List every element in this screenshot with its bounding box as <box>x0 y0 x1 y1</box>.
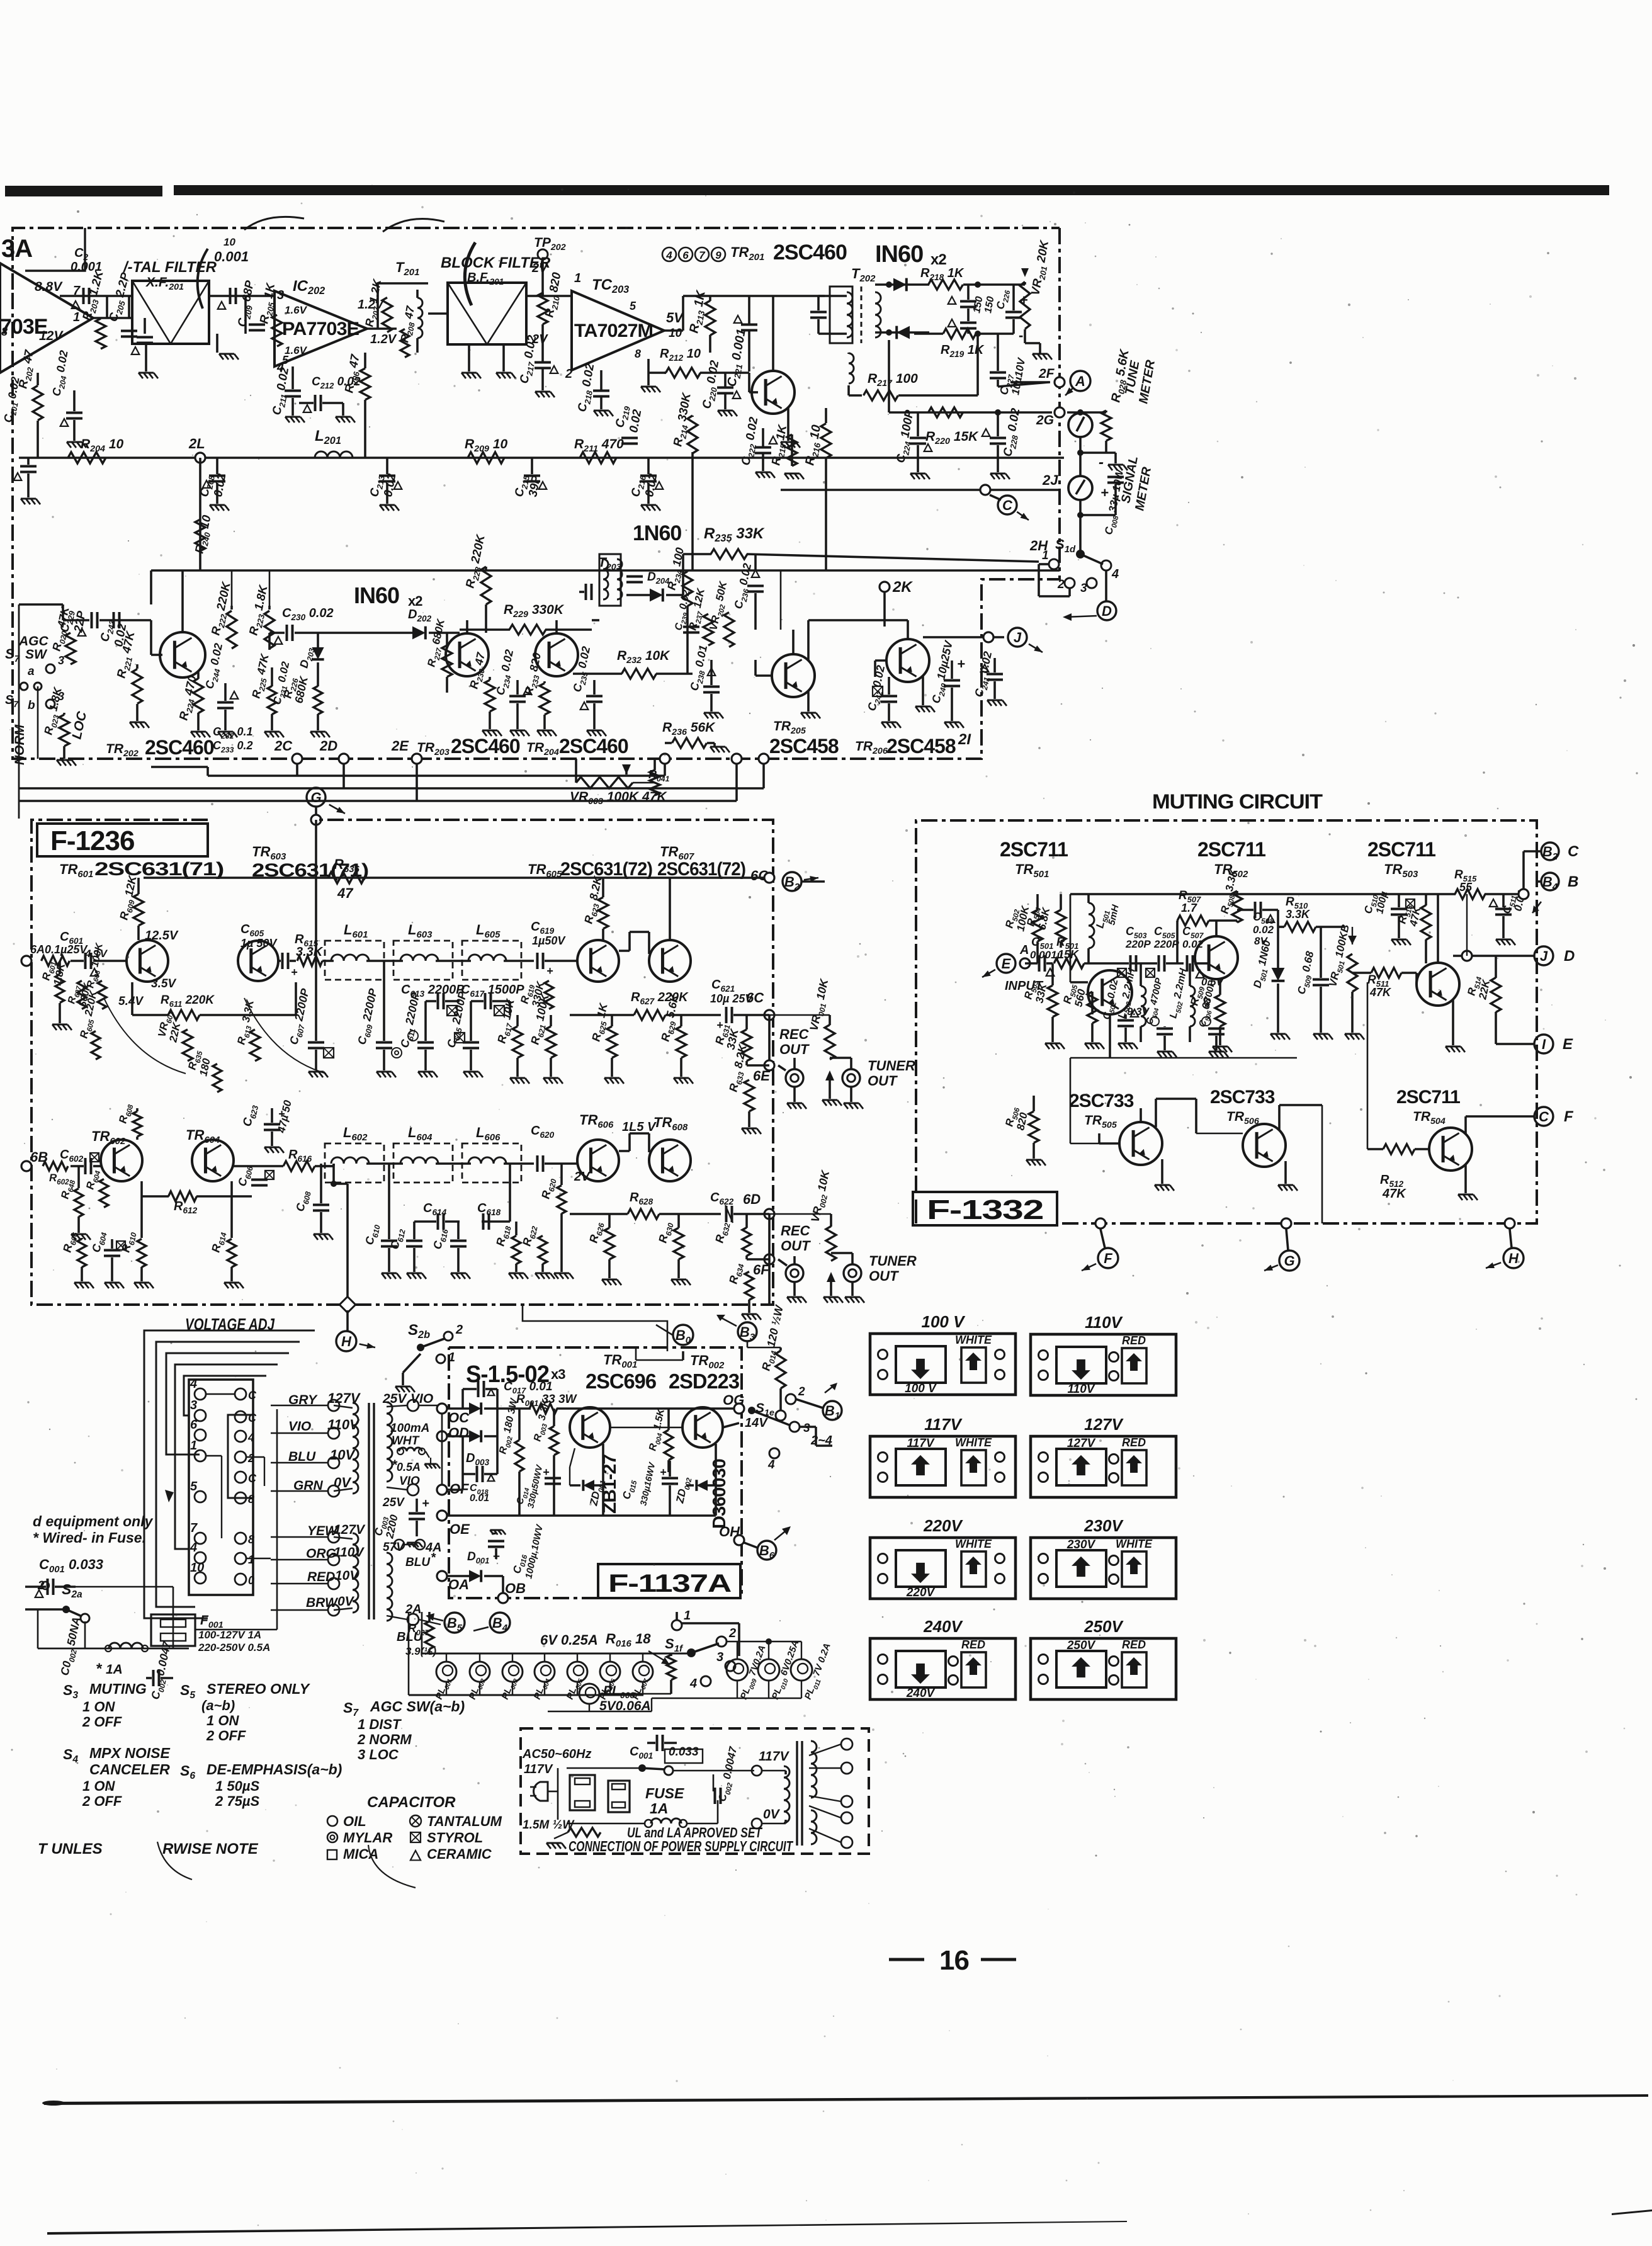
svg-text:10: 10 <box>223 236 235 248</box>
connector B0 <box>673 1325 693 1345</box>
wire main bus y727 <box>19 457 1064 459</box>
svg-text:47K: 47K <box>1369 986 1392 999</box>
svg-text:T UNLES: T UNLES <box>38 1840 103 1857</box>
input node 6A <box>21 956 31 966</box>
wires power out <box>610 1427 682 1429</box>
fuse F001 box <box>151 1614 195 1646</box>
voltage selector 240V box <box>870 1638 1016 1699</box>
svg-text:2SC631(71): 2SC631(71) <box>94 859 223 880</box>
svg-text:220V: 220V <box>923 1516 963 1535</box>
transistor TR206 2SC458 <box>886 639 929 682</box>
connector B1 <box>823 1401 842 1420</box>
svg-text:5: 5 <box>190 1480 198 1494</box>
connector B2 <box>783 872 801 891</box>
connector B6 <box>757 1541 776 1560</box>
svg-text:2C: 2C <box>274 738 293 754</box>
transistor TR502 <box>1195 936 1238 979</box>
svg-text:1 50µS: 1 50µS <box>215 1778 259 1794</box>
transistor TR607 <box>649 940 691 982</box>
plug symbol right <box>608 1781 630 1812</box>
voltage selector 127V left terminals <box>1039 1453 1048 1462</box>
wires from B0 B3 <box>682 1351 684 1360</box>
voltage selector 127V right terminals <box>1109 1455 1119 1464</box>
svg-text:C230 0.02: C230 0.02 <box>282 606 334 622</box>
svg-text:STEREO ONLY: STEREO ONLY <box>206 1681 311 1697</box>
svg-text:NORM: NORM <box>13 724 27 765</box>
voltage selector 117V main plug <box>896 1449 946 1485</box>
F-1236 block dash-dot border <box>31 820 773 1305</box>
svg-text:1: 1 <box>684 1609 691 1623</box>
svg-text:100 V: 100 V <box>905 1382 937 1395</box>
voltage selector 127V main plug <box>1056 1449 1106 1485</box>
transistor TR504 <box>1429 1128 1472 1171</box>
svg-text:1µ 50V: 1µ 50V <box>240 937 278 950</box>
svg-text:G: G <box>310 790 321 805</box>
svg-text:117V: 117V <box>524 1762 553 1776</box>
S1f feed wires <box>727 1641 801 1642</box>
svg-text:REC: REC <box>781 1223 811 1239</box>
wire <box>128 296 130 318</box>
wire opamp out to T201 <box>367 327 397 330</box>
svg-text:+: + <box>422 1497 429 1511</box>
svg-text:6: 6 <box>190 1418 198 1432</box>
svg-text:G: G <box>1284 1253 1294 1269</box>
svg-text:8: 8 <box>248 1493 254 1506</box>
svg-text:220-250V 0.5A: 220-250V 0.5A <box>198 1642 270 1653</box>
svg-text:E: E <box>1563 1036 1573 1053</box>
svg-text:110V: 110V <box>1085 1313 1123 1332</box>
voltage selector 100 V left terminals <box>878 1350 888 1359</box>
svg-text:100-127V 1A: 100-127V 1A <box>198 1629 261 1641</box>
svg-text:J: J <box>1540 948 1548 964</box>
wire L602 node to H <box>331 1181 337 1187</box>
transistor TR605 <box>577 940 619 982</box>
svg-text:12.5V: 12.5V <box>145 929 179 943</box>
svg-text:C: C <box>248 1389 257 1402</box>
svg-text:OA: OA <box>448 1577 469 1592</box>
svg-text:1.2V: 1.2V <box>370 332 397 346</box>
svg-text:AGC: AGC <box>18 634 49 649</box>
svg-text:2 OFF: 2 OFF <box>82 1793 122 1809</box>
svg-text:C: C <box>1539 1109 1549 1125</box>
svg-text:25V: 25V <box>382 1496 405 1509</box>
svg-text:C: C <box>248 1412 257 1424</box>
F-1137A dash-dot border <box>449 1347 742 1540</box>
svg-text:TUNER: TUNER <box>868 1058 915 1074</box>
opamp IC201 703E (partial at left edge) <box>0 263 93 373</box>
svg-text:D: D <box>1102 603 1112 619</box>
svg-text:4: 4 <box>689 1677 697 1691</box>
voltage selector 230V box <box>1031 1538 1176 1599</box>
svg-text:2SC711: 2SC711 <box>1000 838 1068 861</box>
svg-text:*: * <box>431 1551 436 1565</box>
connector G <box>307 788 325 807</box>
svg-text:4: 4 <box>1111 567 1119 581</box>
transformer primary coil upper <box>353 1403 358 1494</box>
svg-text:2 75µS: 2 75µS <box>215 1793 259 1809</box>
connector E input <box>997 954 1016 973</box>
svg-text:8.8V: 8.8V <box>35 280 63 294</box>
svg-text:MPX NOISE: MPX NOISE <box>89 1745 170 1761</box>
svg-text:F: F <box>1564 1108 1574 1125</box>
svg-text:10V: 10V <box>330 1447 356 1463</box>
svg-text:1 ON: 1 ON <box>206 1713 239 1728</box>
ground under XF201 <box>145 344 147 371</box>
svg-text:4: 4 <box>190 1377 197 1391</box>
grounds under BF201 <box>468 344 470 371</box>
transistor TR204 2SC460 <box>535 633 578 676</box>
svg-text:110V: 110V <box>1068 1383 1095 1396</box>
plug pins left <box>195 1388 206 1400</box>
svg-text:IN60: IN60 <box>354 582 399 608</box>
svg-text:A: A <box>1019 943 1029 957</box>
svg-text:x3: x3 <box>551 1366 565 1382</box>
svg-text:DE-EMPHASIS(a~b): DE-EMPHASIS(a~b) <box>206 1761 342 1778</box>
svg-text:2SC460: 2SC460 <box>559 735 628 757</box>
svg-text:8: 8 <box>248 1533 254 1546</box>
svg-text:J: J <box>1014 630 1022 645</box>
svg-text:+: + <box>957 656 965 672</box>
svg-text:OIL: OIL <box>343 1813 366 1829</box>
svg-text:F-1236: F-1236 <box>50 825 134 856</box>
svg-text:OE: OE <box>450 1521 470 1537</box>
wire cross connections mid <box>780 570 782 630</box>
connector J D right <box>1534 946 1553 965</box>
svg-text:1: 1 <box>248 1553 254 1566</box>
svg-text:47: 47 <box>337 885 354 901</box>
connector B4 B right <box>1541 873 1559 890</box>
svg-text:C: C <box>1568 843 1579 860</box>
svg-text:B: B <box>1568 873 1578 890</box>
svg-text:+: + <box>660 1466 667 1478</box>
svg-text:0: 0 <box>248 1574 254 1587</box>
svg-text:C: C <box>248 1472 257 1485</box>
svg-text:2E: 2E <box>391 738 409 754</box>
voltage selector 127V box <box>1031 1436 1176 1497</box>
svg-text:WHT: WHT <box>392 1434 420 1448</box>
svg-text:RED: RED <box>1122 1638 1146 1651</box>
connector I E right <box>1534 1035 1553 1053</box>
svg-text:2H: 2H <box>1029 538 1048 553</box>
connector B4 <box>490 1613 510 1633</box>
ground R212 <box>647 373 650 385</box>
svg-text:2SC711: 2SC711 <box>1396 1087 1460 1108</box>
svg-text:R235 33K: R235 33K <box>704 525 765 544</box>
svg-text:47K: 47K <box>1382 1187 1406 1201</box>
svg-text:2SC711: 2SC711 <box>1197 838 1265 861</box>
svg-text:RWISE NOTE: RWISE NOTE <box>162 1840 259 1857</box>
secondary terminals in box <box>841 1738 852 1750</box>
node 2F exit and connector A <box>1055 377 1065 387</box>
svg-text:7: 7 <box>190 1521 198 1535</box>
plug inner box <box>228 1415 253 1498</box>
voltage selector 230V left terminals <box>1039 1554 1048 1563</box>
svg-text:4: 4 <box>665 249 672 261</box>
svg-text:BRW: BRW <box>306 1596 339 1610</box>
upper bus wire y1394 <box>144 876 769 879</box>
svg-text:a: a <box>28 665 35 678</box>
muting bottom connectors F G H <box>1095 1218 1106 1228</box>
lamp bottom bus <box>409 1694 643 1696</box>
svg-text:10: 10 <box>669 327 682 340</box>
svg-text:*: * <box>392 1457 398 1473</box>
svg-text:3.5V: 3.5V <box>151 977 176 990</box>
svg-text:1 ON: 1 ON <box>82 1778 115 1794</box>
svg-text:SW: SW <box>25 647 48 662</box>
fuse symbol <box>645 1820 652 1827</box>
resistor R601 input <box>42 956 70 966</box>
svg-text:OC: OC <box>448 1410 470 1426</box>
svg-text:2G: 2G <box>1036 413 1054 428</box>
svg-text:WHITE: WHITE <box>955 1538 992 1550</box>
bottom rule 2 <box>47 2221 1127 2235</box>
voltage selector 117V right terminals <box>995 1453 1005 1462</box>
voltage selector 110V box <box>1031 1334 1176 1395</box>
svg-text:1.7: 1.7 <box>1181 902 1197 914</box>
svg-text:+: + <box>546 965 553 977</box>
svg-text:WHITE: WHITE <box>955 1334 992 1346</box>
connector J <box>923 636 1004 638</box>
bottom rule 1 <box>44 2094 1648 2105</box>
connector C <box>998 496 1017 514</box>
svg-text:A: A <box>1075 373 1085 389</box>
page number 16 <box>889 1958 924 1961</box>
svg-text:FUSE: FUSE <box>645 1785 684 1801</box>
svg-text:-: - <box>1099 454 1104 471</box>
svg-text:250V: 250V <box>1083 1617 1124 1636</box>
svg-text:100mA: 100mA <box>390 1422 429 1435</box>
svg-text:STYROL: STYROL <box>427 1830 483 1846</box>
transformer core in box <box>796 1741 798 1846</box>
pilot lamp at 1273 <box>791 1659 812 1681</box>
svg-text:/-TAL FILTER: /-TAL FILTER <box>123 259 217 276</box>
svg-text:3.3K: 3.3K <box>1286 908 1311 921</box>
svg-text:I: I <box>1542 1036 1546 1052</box>
svg-text:1A: 1A <box>650 1800 668 1817</box>
diode D IN60 upper <box>875 283 929 286</box>
muting top rail <box>1070 893 1454 895</box>
svg-text:3 LOC: 3 LOC <box>358 1747 399 1762</box>
svg-text:+: + <box>543 1466 550 1478</box>
wire second strip y906 <box>151 569 1060 572</box>
switch S1e <box>748 1407 755 1414</box>
transistor TR506 <box>1243 1124 1286 1167</box>
voltage adj arrow mark <box>165 1490 174 1502</box>
svg-text:2SC458: 2SC458 <box>886 735 956 757</box>
voltage selector 250V right terminals <box>1109 1657 1119 1666</box>
svg-text:127V: 127V <box>1067 1437 1096 1450</box>
voltage selector 220V right terminals <box>995 1554 1005 1563</box>
svg-text:220P: 220P <box>1153 938 1179 950</box>
node on F-1236 bottom border <box>339 1296 355 1312</box>
svg-text:R236 56K: R236 56K <box>662 720 716 737</box>
wire T201 to BF201 <box>428 312 448 315</box>
svg-text:0.02: 0.02 <box>1253 924 1274 936</box>
svg-text:5: 5 <box>630 300 636 312</box>
svg-text:12V: 12V <box>39 329 64 343</box>
transformer secondary coil lower <box>387 1553 392 1621</box>
svg-text:16: 16 <box>939 1945 969 1976</box>
capacitor C225 150 <box>960 300 976 303</box>
svg-text:8: 8 <box>635 348 641 360</box>
svg-text:1µ50V: 1µ50V <box>532 934 566 947</box>
svg-text:H: H <box>1508 1251 1519 1266</box>
voltage selector 220V left terminals <box>878 1554 888 1563</box>
svg-text:REC: REC <box>779 1026 810 1042</box>
svg-text:+: + <box>1100 485 1109 501</box>
svg-text:* Wired- in Fuse.: * Wired- in Fuse. <box>33 1529 146 1546</box>
voltage selector 240V left terminals <box>878 1655 888 1664</box>
svg-text:MUTING CIRCUIT: MUTING CIRCUIT <box>1152 790 1323 813</box>
connector D <box>1097 601 1116 620</box>
svg-text:TA7027M: TA7027M <box>574 320 653 341</box>
svg-text:6D: 6D <box>743 1191 761 1207</box>
transformer core <box>368 1403 370 1619</box>
svg-text:R232 10K: R232 10K <box>617 649 670 666</box>
svg-text:WHITE: WHITE <box>1116 1538 1153 1550</box>
svg-text:OB: OB <box>505 1580 526 1596</box>
voltage selector 220V box <box>870 1538 1016 1599</box>
pilot lamp PL007 <box>633 1662 653 1682</box>
transistor TR503 <box>1417 963 1459 1006</box>
svg-text:3: 3 <box>1080 582 1087 595</box>
vertical from G to bus <box>315 820 317 961</box>
transistor TR201 2SC460 <box>752 371 795 414</box>
svg-text:WHITE: WHITE <box>955 1436 992 1449</box>
svg-text:4: 4 <box>247 1431 254 1444</box>
top rule left segment <box>5 186 162 196</box>
svg-text:0.5A: 0.5A <box>397 1461 421 1473</box>
transformer secondary in box <box>811 1741 817 1798</box>
svg-text:3: 3 <box>803 1422 810 1435</box>
voltage selector 100 V main plug <box>896 1346 946 1383</box>
svg-text:240V: 240V <box>923 1617 963 1636</box>
svg-text:OD: OD <box>448 1425 469 1441</box>
svg-text:2: 2 <box>1057 578 1065 591</box>
transistor TR601 <box>127 940 168 982</box>
svg-text:VR003 100K: VR003 100K <box>570 790 640 807</box>
svg-text:117V: 117V <box>924 1415 963 1434</box>
svg-text:10: 10 <box>190 1561 204 1575</box>
transistor TR203 2SC460 <box>446 633 489 676</box>
svg-text:F-1137A: F-1137A <box>608 1570 731 1597</box>
transistor TR603 <box>238 941 278 981</box>
svg-text:D: D <box>1564 948 1575 965</box>
tune meter <box>1068 413 1092 437</box>
capacitor C226 150 <box>960 322 976 324</box>
svg-text:2: 2 <box>565 367 572 381</box>
secondary tap 57V 4A <box>394 1540 404 1550</box>
svg-text:RED: RED <box>307 1570 335 1584</box>
diode D IN60 lower <box>875 331 929 334</box>
svg-text:1: 1 <box>448 1351 455 1364</box>
svg-text:1 DIST: 1 DIST <box>358 1716 402 1732</box>
coil T202 tertiary <box>849 353 854 383</box>
svg-text:CAPACITOR: CAPACITOR <box>367 1794 456 1811</box>
wire OC vertical bus <box>441 1414 443 1485</box>
svg-text:1N60: 1N60 <box>633 521 681 545</box>
svg-text:2SC631(72): 2SC631(72) <box>560 859 652 880</box>
voltage selector 100 V right terminals <box>995 1350 1005 1359</box>
svg-text:2: 2 <box>798 1385 805 1398</box>
lamp bus wire <box>422 1653 688 1655</box>
svg-text:2: 2 <box>455 1323 463 1337</box>
voltage selector 230V right terminals <box>1109 1556 1119 1565</box>
svg-text:117V: 117V <box>907 1437 935 1450</box>
svg-text:2V: 2V <box>531 261 548 275</box>
plug symbol left <box>570 1775 595 1810</box>
svg-text:2SC733: 2SC733 <box>1069 1091 1134 1111</box>
voltage selector 230V main plug <box>1056 1550 1106 1587</box>
svg-text:2SC711: 2SC711 <box>1367 838 1435 861</box>
pilot lamp PL005 <box>567 1662 587 1682</box>
svg-text:TUNER: TUNER <box>869 1253 917 1269</box>
svg-text:2F: 2F <box>1038 366 1055 381</box>
svg-text:R211 470: R211 470 <box>574 437 624 454</box>
voltage selector 250V main plug <box>1056 1651 1106 1687</box>
wires AGC area <box>18 604 20 759</box>
svg-text:2SC458: 2SC458 <box>769 735 839 757</box>
capacitor C601 <box>84 953 87 969</box>
svg-text:230V: 230V <box>1083 1516 1124 1535</box>
svg-text:2: 2 <box>247 1452 254 1465</box>
pilot lamp at 1221 <box>758 1659 779 1681</box>
muting lower wires <box>1070 981 1088 984</box>
svg-text:5V: 5V <box>666 310 684 326</box>
voltage selector 110V main plug <box>1056 1347 1106 1383</box>
voltage selector 250V left terminals <box>1039 1655 1048 1664</box>
F-1332 block dash-dot border <box>916 820 1537 1223</box>
ground VR201 2F <box>1032 353 1048 355</box>
svg-text:D360030: D360030 <box>710 1459 730 1529</box>
FM IF block dash-dot border <box>13 228 1060 290</box>
svg-text:2SC696: 2SC696 <box>586 1370 657 1393</box>
bottom rail OE <box>446 1514 716 1517</box>
connector B3 <box>738 1322 757 1341</box>
wire 2L drop <box>199 458 201 570</box>
voltage selector 220V main plug <box>896 1550 946 1587</box>
svg-text:(a~b): (a~b) <box>201 1698 235 1713</box>
voltage selector 110V right terminals <box>1109 1353 1119 1362</box>
voltage selector 117V left terminals <box>878 1453 888 1462</box>
node 2G exit <box>1055 407 1065 417</box>
feedback wires below border <box>296 764 298 776</box>
svg-text:d equipment only: d equipment only <box>33 1513 154 1529</box>
svg-text:100 V: 100 V <box>922 1312 966 1331</box>
svg-text:RED: RED <box>961 1638 985 1651</box>
scan artifact arcs top <box>198 249 208 309</box>
svg-text:2K: 2K <box>892 579 913 596</box>
jack TUNER OUT lower <box>844 1264 861 1282</box>
capacitor C008 33u10W <box>1114 453 1117 463</box>
svg-text:1: 1 <box>73 310 80 324</box>
wire top chain to TR201 <box>664 329 683 332</box>
svg-text:CONNECTION OF POWER SUPPLY CIR: CONNECTION OF POWER SUPPLY CIRCUIT <box>569 1838 793 1854</box>
scan speckle noise <box>1049 221 1051 222</box>
voltage selector 240V main plug <box>896 1651 946 1687</box>
plug pins right <box>235 1388 246 1400</box>
svg-text:2 OFF: 2 OFF <box>82 1714 122 1730</box>
F-1137A label box <box>598 1564 740 1598</box>
top rule right segment <box>174 185 1609 195</box>
svg-text:230V: 230V <box>1066 1538 1096 1551</box>
svg-text:x2: x2 <box>931 251 946 268</box>
svg-text:BLU: BLU <box>288 1449 316 1464</box>
svg-text:BLU: BLU <box>405 1556 431 1569</box>
svg-text:117V: 117V <box>759 1749 789 1764</box>
transformer primary coil lower <box>353 1533 358 1613</box>
potentiometer VR003 100K <box>576 777 633 788</box>
